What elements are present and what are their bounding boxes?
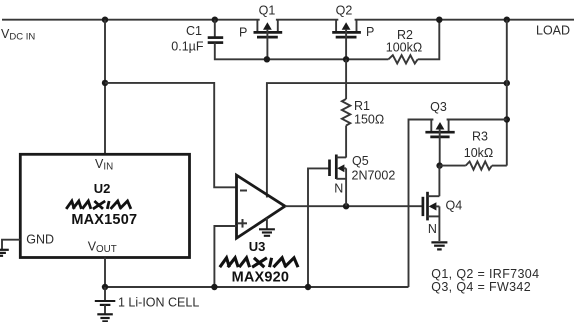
junction dot VIN riser / minus branch [102, 80, 108, 86]
resistor R1 zigzag [342, 99, 350, 126]
svg-text:150Ω: 150Ω [354, 113, 384, 127]
svg-text:GND: GND [26, 233, 54, 247]
junction dot Q5 source on output wire [343, 203, 349, 209]
junction dot VOUT / battery [102, 284, 108, 290]
junction dot Q3 gate / R3 / Q4 drain [436, 162, 442, 168]
resistor R3 zigzag [466, 162, 492, 170]
wire plus-input branch to bottom rail [214, 226, 236, 287]
wire R1 bottom lead to Q5 drain [345, 126, 347, 158]
svg-text:Q1, Q2 = IRF7304: Q1, Q2 = IRF7304 [431, 267, 539, 281]
svg-text:U3: U3 [249, 239, 266, 254]
junction dot plus riser / bottom rail [211, 284, 217, 290]
wire U3 V+ branch from load node [267, 83, 507, 197]
junction dot Q2 gate / R1 on gate bus [343, 56, 349, 62]
svg-text:Q4: Q4 [446, 199, 463, 213]
ground battery [97, 314, 113, 321]
battery B1 short plate [100, 304, 111, 306]
op-amp U3 minus sign [240, 190, 247, 192]
svg-text:Q3, Q4 = FW342: Q3, Q4 = FW342 [431, 280, 531, 294]
wire R1 top lead [345, 59, 347, 99]
svg-text:Q5: Q5 [352, 154, 369, 168]
junction dot Q5 gate riser / bottom rail [305, 284, 311, 290]
wire GND pin lead [2, 240, 20, 250]
svg-text:N: N [428, 222, 437, 236]
svg-text:MAX1507: MAX1507 [71, 212, 137, 228]
wire bottom rail [105, 286, 409, 288]
svg-text:LOAD: LOAD [536, 24, 570, 38]
svg-text:1 Li-ION CELL: 1 Li-ION CELL [118, 296, 199, 310]
junction dot Q1 gate on gate bus [264, 56, 270, 62]
transistor Q1 (P-channel MOSFET) [254, 20, 283, 60]
svg-text:N: N [334, 182, 343, 196]
op-amp U3 comparator triangle [237, 175, 286, 238]
svg-text:MAX920: MAX920 [232, 270, 290, 286]
wire R2 right lead and riser to top rail [418, 20, 440, 60]
svg-text:2N7002: 2N7002 [352, 169, 396, 183]
junction dot top rail / C1 [212, 17, 218, 23]
ground Q4 [431, 242, 447, 249]
ground U3 [259, 218, 275, 236]
wire C1 top lead [214, 20, 216, 38]
svg-text:U2: U2 [94, 181, 111, 196]
svg-text:Q1: Q1 [259, 3, 276, 17]
wire Q5 gate riser to bottom rail [308, 168, 330, 287]
junction dot R2 riser / top rail [436, 17, 442, 23]
svg-text:P: P [239, 25, 247, 39]
IC U2 box [20, 154, 189, 257]
junction dot V+ branch / load vertical [504, 80, 510, 86]
wire VIN riser [104, 20, 106, 155]
wire Q3 left branch from bottom rail riser [409, 120, 434, 288]
op-amp U3 plus sign [238, 222, 247, 224]
wire U3 output [285, 205, 423, 207]
svg-text:Q3: Q3 [430, 100, 447, 114]
resistor R2 zigzag [388, 55, 417, 63]
svg-text:0.1µF: 0.1µF [171, 40, 204, 54]
junction dot load vertical / Q3 branch [504, 116, 510, 122]
wire top rail left segment (VDC IN to Q1) [2, 19, 260, 21]
svg-text:R1: R1 [354, 99, 370, 113]
junction dot top rail / VIN riser [102, 17, 108, 23]
svg-text:R3: R3 [472, 130, 488, 144]
svg-text:10kΩ: 10kΩ [464, 146, 494, 160]
op-amp U3 MAXIM logo [220, 258, 298, 267]
capacitor C1 plates [208, 36, 224, 39]
wire R3 left lead [440, 165, 466, 167]
transistor Q2 (P-channel MOSFET) [332, 20, 361, 60]
IC U2 MAXIM logo [66, 201, 131, 209]
transistor Q5 (N-channel MOSFET) [330, 155, 347, 207]
transistor Q3 (P-channel MOSFET) [425, 120, 454, 166]
wire Q3 right branch to load vertical [447, 119, 507, 121]
wire load vertical [506, 20, 508, 166]
svg-text:C1: C1 [186, 24, 202, 38]
svg-text:P: P [366, 25, 374, 39]
wire R3 right lead and riser [492, 165, 507, 167]
wire minus-input branch horizontal [105, 83, 237, 187]
battery B1 long plate [95, 300, 116, 302]
ground U2 GND [0, 250, 9, 256]
transistor Q4 (N-channel MOSFET) [423, 166, 440, 241]
wire C1 bottom lead and gate bus [215, 43, 389, 60]
battery B1 top lead [104, 287, 106, 301]
svg-text:100kΩ: 100kΩ [386, 41, 422, 55]
svg-text:Q2: Q2 [336, 3, 353, 17]
wire top rail middle segment (Q1 to Q2) [276, 19, 338, 21]
wire top rail right segment (Q2 to LOAD) [355, 19, 574, 21]
junction dot load vertical / top rail [504, 17, 510, 23]
battery B1 bottom lead [104, 305, 106, 314]
wire VOUT pin lead to bottom rail [104, 258, 106, 288]
